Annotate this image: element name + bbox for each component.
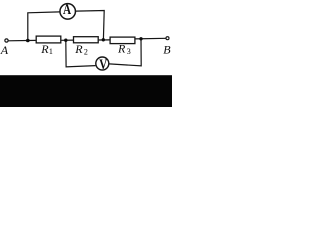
voltmeter V — [96, 57, 109, 70]
svg-text:R: R — [74, 42, 83, 56]
wire voltmeter branch left — [66, 40, 96, 67]
resistor R1 — [36, 36, 61, 43]
wire R3 to B — [135, 37, 165, 40]
terminal A — [5, 39, 8, 42]
junction node 4 — [139, 37, 142, 40]
wire R1 to R2 — [61, 39, 73, 41]
svg-text:R: R — [117, 42, 126, 56]
junction node 3 — [102, 38, 105, 41]
svg-text:2: 2 — [84, 48, 88, 57]
wire ammeter branch right — [76, 11, 104, 40]
wire R2 to R3 — [99, 39, 110, 41]
svg-text:B: B — [163, 43, 171, 57]
junction node 1 — [26, 39, 30, 43]
svg-text:3: 3 — [127, 47, 131, 56]
svg-text:A: A — [63, 1, 72, 18]
resistor R2 — [74, 37, 99, 43]
svg-text:R: R — [40, 42, 49, 56]
junction node 2 — [64, 39, 67, 42]
svg-text:1: 1 — [49, 47, 53, 56]
ammeter A — [60, 4, 76, 20]
svg-text:V: V — [99, 55, 107, 72]
wire A to R1 — [8, 39, 36, 41]
wire voltmeter branch right — [109, 39, 141, 66]
terminal B — [166, 37, 169, 40]
resistor R3 — [110, 37, 135, 44]
black redaction bar — [0, 75, 172, 107]
wire ammeter branch left — [28, 12, 60, 41]
svg-text:A: A — [0, 43, 9, 57]
